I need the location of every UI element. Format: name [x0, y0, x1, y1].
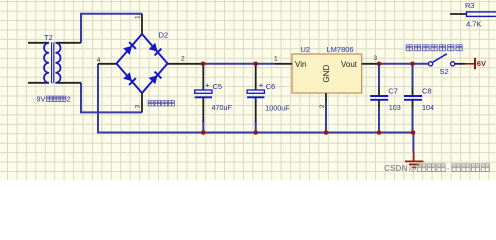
capacitor C8: [404, 96, 422, 100]
wire negative rail from bridge pin 4: [98, 64, 413, 133]
bridge pin 4 lead: [98, 63, 117, 65]
svg-text:2: 2: [319, 104, 326, 108]
junction dot 3: [377, 62, 382, 67]
svg-text:C6: C6: [266, 82, 276, 91]
svg-text:1: 1: [274, 56, 278, 63]
svg-text:2: 2: [181, 56, 185, 63]
capacitor C6: [255, 64, 257, 90]
wire C7 branch: [378, 64, 380, 133]
svg-text:LM7806: LM7806: [327, 45, 354, 54]
power port 6V: [465, 63, 475, 65]
diode D2 bottom-right: [149, 72, 162, 85]
U2 pin 1 lead: [275, 63, 292, 65]
wire rail end to ground: [412, 133, 414, 153]
wire transformer bottom to bridge pin 3: [81, 83, 142, 113]
svg-text:@: @: [408, 163, 416, 173]
svg-text:103: 103: [389, 103, 401, 112]
svg-text:R3: R3: [465, 1, 475, 10]
svg-text:4: 4: [97, 57, 101, 64]
wire C8 branch: [412, 64, 414, 133]
svg-text:C7: C7: [388, 86, 398, 95]
bridge pin 2 lead: [168, 63, 204, 65]
svg-text:1000uF: 1000uF: [265, 103, 290, 112]
svg-text:+: +: [259, 80, 264, 89]
junction dot 9: [411, 130, 416, 135]
junction dot 8: [377, 130, 382, 135]
svg-text:104: 104: [422, 103, 434, 112]
junction dot 4: [410, 62, 415, 67]
svg-text:U2: U2: [301, 45, 311, 54]
wire top rail transformer to bridge pin 1: [81, 14, 142, 43]
svg-text:6V: 6V: [477, 59, 486, 68]
svg-text:-: -: [447, 163, 450, 173]
svg-text:4.7K: 4.7K: [466, 19, 481, 28]
svg-text:3: 3: [374, 55, 378, 62]
label motor power main switch (CJK): [406, 45, 412, 51]
U2 pin 2 lead: [325, 93, 327, 102]
svg-text:+: +: [205, 80, 210, 89]
wire positive rail to U2 pin 1: [203, 63, 275, 65]
ground: [405, 152, 423, 167]
switch lead to power port: [455, 63, 465, 65]
svg-text:2: 2: [67, 94, 71, 103]
junction dot 7: [324, 130, 329, 135]
resistor R3: [450, 13, 467, 15]
bridge pin 3: [141, 93, 143, 112]
diode D2 bottom-left: [123, 72, 136, 85]
svg-text:470uF: 470uF: [212, 103, 233, 112]
svg-text:T2: T2: [44, 33, 53, 42]
junction dot 6: [253, 130, 258, 135]
U2 pin 3 lead: [362, 63, 379, 65]
junction dot 2: [253, 62, 258, 67]
capacitor C7: [370, 96, 388, 100]
svg-text:S2: S2: [440, 67, 449, 76]
svg-text:C5: C5: [213, 82, 223, 91]
svg-text:D2: D2: [159, 31, 169, 40]
diode D2 top-left: [123, 42, 136, 55]
svg-text:1: 1: [135, 15, 142, 19]
junction dot 1: [201, 62, 206, 67]
bridge rectifier D2: [117, 34, 168, 93]
switch S2: [429, 62, 433, 66]
capacitor C5: [202, 64, 204, 90]
junction dot 5: [201, 130, 206, 135]
watermark CSDN: [384, 163, 489, 173]
svg-text:9V: 9V: [37, 94, 46, 103]
wire C5 bottom: [202, 121, 204, 133]
transformer T2: [28, 42, 81, 83]
svg-text:CSDN: CSDN: [384, 163, 408, 173]
svg-text:GND: GND: [322, 65, 331, 83]
bridge pin 1: [141, 14, 143, 34]
regulator U2 LM7806 box: [292, 54, 362, 93]
svg-text:C8: C8: [422, 86, 432, 95]
svg-text:Vin: Vin: [295, 60, 306, 69]
svg-text:3: 3: [135, 104, 142, 108]
svg-text:Vout: Vout: [341, 60, 358, 69]
diode D2 top-right: [149, 43, 162, 56]
wire Vout rail to switch: [379, 63, 429, 65]
label rectifier bridge (CJK): [148, 101, 154, 107]
wire U2 pin 2 to negative rail: [325, 101, 327, 133]
wire C6 bottom: [255, 121, 257, 133]
